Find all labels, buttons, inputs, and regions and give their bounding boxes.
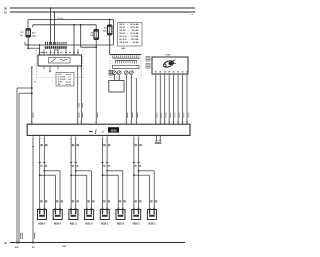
control unit right bottom stubs (156, 135, 158, 140)
connector comb on relay carrier (25, 44, 114, 46)
wire fuse S13 supply (27, 20, 29, 29)
wire group 3 left (102, 139, 104, 210)
svg-text:S13: S13 (32, 33, 37, 35)
ground connection symbols (16, 242, 18, 244)
control unit designation plate (108, 127, 119, 132)
wire fuse S5 output to control unit (95, 39, 97, 124)
wire relay carrier to control unit x81.3 (80, 66, 82, 124)
svg-text:10A: 10A (103, 30, 107, 33)
wire group 4 branch upper (138, 170, 140, 172)
wire relay plate to control unit 3 (135, 78, 137, 124)
wire fuse S13 output (27, 37, 29, 48)
wire group 2 branch upper (75, 170, 77, 172)
injector N31-2 (85, 210, 94, 220)
wire group 2 left (70, 139, 72, 210)
control unit bottom pin ticks (39, 135, 41, 137)
svg-text:S1 - 10A: S1 - 10A (119, 23, 140, 26)
control unit top pin ticks (31, 122, 33, 124)
wire labels x31.8 (32, 113, 35, 119)
svg-text:ʃ: ʃ (94, 129, 97, 134)
relay J52 box (38, 55, 82, 66)
wire group 1 right (43, 139, 45, 210)
svg-text:605: 605 (15, 247, 19, 249)
wire group 2 wire code labels (72, 144, 75, 146)
svg-text:2A: 2A (20, 34, 23, 37)
svg-text:S2 - 10A: S2 - 10A (119, 26, 140, 29)
wire group 4 terminal labels (135, 200, 137, 202)
injector N33-2 (147, 210, 156, 220)
wire relay output to connector (49, 69, 51, 72)
wire from y19.6 right end down to connector comb (113, 20, 115, 45)
wire fuse S2 to relay plate (109, 35, 111, 55)
fuse S5 (94, 30, 98, 40)
wire group 3 branch upper (106, 170, 108, 172)
wires ignition switch to control unit (155, 76, 157, 124)
injector N30-1 (38, 210, 47, 220)
wire group 3 branch lower (102, 174, 104, 176)
wire drop from bus 15 at x54.4 (53, 12, 55, 45)
wire group 4 branch lower (133, 174, 135, 176)
wire group 2 terminal labels (72, 200, 74, 202)
svg-text:N31-1: N31-1 (70, 221, 78, 225)
wire drop x74 to relay (73, 25, 75, 55)
svg-text:S9 - 15A: S9 - 15A (119, 32, 140, 35)
ignition switch inner pin numbers (155, 71, 157, 72)
wire group 2 right (75, 139, 77, 210)
relay pins bottom (43, 66, 45, 68)
connector T2 left of ignition switch (146, 57, 150, 62)
svg-text:N32-2: N32-2 (117, 221, 125, 225)
wire fuse S13 branch to relay (28, 47, 39, 49)
relay plate sockets (113, 71, 117, 75)
svg-text:15: 15 (4, 10, 8, 14)
injector N32-2 (116, 210, 125, 220)
svg-text:A32: A32 (62, 245, 67, 248)
svg-text:5A: 5A (91, 34, 94, 37)
legend box connector key (56, 73, 74, 87)
fuse S2 (108, 25, 112, 35)
svg-text:N31-2: N31-2 (86, 221, 94, 225)
wire relay carrier to control unit x31.8 (31, 67, 33, 125)
wire fuse S5 supply drop (95, 25, 97, 30)
wire socket to junction box 1 (113, 75, 115, 81)
svg-text:F12: F12 (20, 32, 23, 34)
relay plate dashed box (110, 54, 141, 56)
injector N30-2 (53, 210, 62, 220)
wire group 3 right (106, 139, 108, 210)
wire fuse S2 supply stub (109, 19, 111, 21)
svg-text:N30-1: N30-1 (38, 221, 46, 225)
wire horizontal feed y19.6 from x28 to x113.5 (28, 19, 114, 21)
ignition switch pin numbers (155, 74, 156, 77)
fuse S13 (26, 29, 30, 37)
svg-text:S2: S2 (104, 28, 107, 30)
wire bus 30 (battery positive rail) (10, 7, 195, 9)
svg-text:♫: ♫ (101, 129, 104, 134)
ignition switch key symbol (163, 59, 177, 69)
wire drop from bus 30 at x50.6 (50, 8, 52, 45)
wire bus 31 ground rail (10, 242, 185, 244)
legend box fuse key (118, 23, 143, 47)
svg-text:N30-2: N30-2 (54, 221, 62, 225)
wire socket to control unit 2 (130, 75, 132, 125)
wire control unit ground pin (32, 139, 34, 243)
svg-text:N32-1: N32-1 (101, 221, 109, 225)
relay plate bar (113, 65, 140, 68)
svg-text:0,5 ro: 0,5 ro (58, 17, 64, 20)
wire group 1 terminal labels (40, 200, 42, 202)
relay plate terminal box (109, 70, 113, 75)
svg-text:S15 - 20A: S15 - 20A (119, 38, 140, 41)
wire labels on switch wires (156, 113, 159, 119)
junction box (109, 81, 124, 93)
wire group 1 wire code labels (40, 144, 43, 146)
wire group 4 right (138, 139, 140, 210)
wire group 3 terminal labels (103, 200, 105, 202)
ignition switch D box (152, 57, 188, 74)
relay plate comb 1 (113, 57, 140, 59)
svg-text:S13 - 10A: S13 - 10A (119, 35, 140, 38)
relay carrier dashed enclosure (37, 50, 84, 78)
wire group 1 inline connector ticks (39, 161, 41, 163)
svg-text:J52: J52 (55, 50, 59, 52)
svg-text:S18 - 5A: S18 - 5A (119, 41, 140, 44)
wire horizontal feed y24.8 (33, 24, 96, 26)
wire group 1 branch lower (39, 174, 41, 176)
wire relay carrier to control unit x77.7 (77, 66, 79, 124)
connector T2b (146, 64, 150, 69)
wire branch to ground left outer (31, 87, 33, 89)
svg-text:⎓: ⎓ (89, 129, 93, 134)
ground wire labels upper (19, 233, 22, 240)
wire group 2 branch lower (70, 174, 72, 176)
control unit J220 box (27, 124, 190, 135)
wire branch to ground left inner (31, 92, 33, 94)
svg-text:S - ws: S - ws (57, 84, 73, 86)
svg-text:ws: ws (191, 14, 195, 16)
ignition switch pins (155, 74, 157, 75)
wire group 1 left (39, 139, 41, 210)
wire group 4 wire code labels (135, 144, 138, 146)
wire group 4 inline connector ticks (133, 161, 135, 163)
injector N33-1 (132, 210, 141, 220)
wire branch x80.7 to fuse S5 output (80, 24, 82, 26)
svg-text:J220: J220 (110, 129, 117, 133)
connector pin sockets row (45, 46, 47, 49)
svg-text:N33-1: N33-1 (133, 221, 141, 225)
wire socket to control unit 1 (125, 75, 127, 125)
injector N32-1 (100, 210, 109, 220)
svg-text:31: 31 (4, 241, 8, 245)
svg-text:N33-2: N33-2 (148, 221, 156, 225)
wire bus 15 (ignition positive rail) (10, 11, 195, 13)
svg-text:10A: 10A (32, 34, 36, 37)
wire labels x77 x81 (78, 103, 81, 108)
svg-text:54: 54 (32, 246, 35, 249)
wire group 3 inline connector ticks (101, 161, 103, 163)
wire group 1 branch upper (43, 170, 45, 172)
wire group 4 left (133, 139, 135, 210)
relay plate comb 2 (115, 60, 137, 62)
relay inner symbol (49, 58, 71, 64)
svg-text:D/50: D/50 (166, 54, 171, 56)
svg-text:S5 - 5A: S5 - 5A (119, 29, 140, 32)
wire group 3 wire code labels (103, 144, 106, 146)
svg-text:607: 607 (34, 82, 37, 84)
injector N31-1 (69, 210, 78, 220)
relay pins top ticks (39, 49, 41, 55)
wire group 2 inline connector ticks (70, 161, 72, 163)
relay pin numbers top (39, 52, 41, 53)
wire labels vertical near control unit (126, 113, 129, 119)
svg-text:SA6: SA6 (121, 47, 126, 50)
